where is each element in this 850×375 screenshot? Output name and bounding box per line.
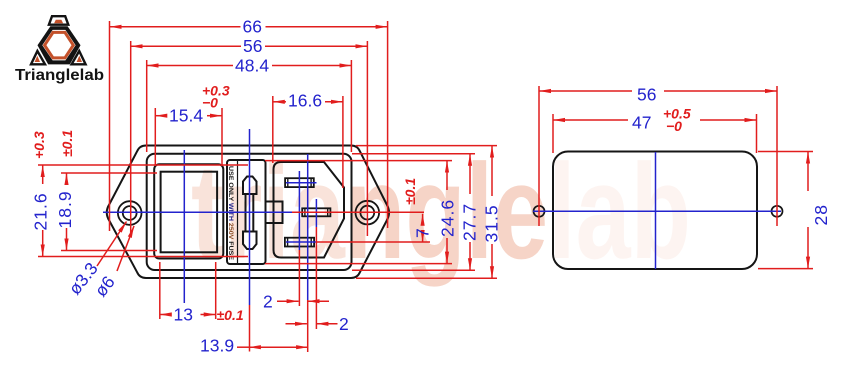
- fuse label text: [227, 166, 234, 261]
- switch rocker: [161, 172, 218, 253]
- LEFTVIEW: [107, 146, 389, 279]
- dim 27.7 extension bottom: [352, 269, 475, 271]
- right mounting hole inner: [360, 206, 374, 220]
- fuse opening: [227, 160, 266, 264]
- switch vertical centerline: [183, 150, 185, 303]
- dim 31.5 line: [491, 146, 493, 196]
- dim 56 extension right: [366, 41, 368, 236]
- svg-text:−0: −0: [666, 118, 682, 134]
- cutout vertical centerline: [655, 152, 657, 269]
- right view dim 28 extension bottom: [758, 268, 813, 270]
- panel hole left: [534, 206, 545, 217]
- dim 18.9 extension bottom: [61, 250, 157, 252]
- right view dim 56 extension right: [776, 86, 778, 226]
- right mounting hole outer: [356, 201, 380, 225]
- dim 24.6 line: [446, 161, 448, 190]
- svg-text:48.4: 48.4: [235, 56, 269, 76]
- svg-text:13: 13: [174, 305, 193, 325]
- dim 16.6 line: [273, 101, 286, 103]
- dim 16.6 extension right: [342, 96, 344, 188]
- logo bottom-right corner piece: [72, 51, 86, 64]
- svg-text:±0.1: ±0.1: [217, 307, 244, 323]
- dim 66 extension left: [109, 21, 111, 231]
- bottom pin horizontal centerline: [286, 241, 317, 243]
- fuse cap top: [243, 177, 257, 195]
- dim 2 lower leader right: [316, 323, 337, 325]
- dim 2 upper leader: [277, 300, 299, 302]
- svg-text:28: 28: [811, 204, 831, 225]
- logo bottom-left orange wedge: [35, 56, 40, 62]
- dim 48.4 extension left: [146, 60, 148, 152]
- logo black hexagon body: [38, 26, 81, 64]
- svg-text:15.4: 15.4: [169, 106, 203, 126]
- right view dim 47 extension left: [552, 114, 554, 153]
- dim 18.9 line: [66, 173, 68, 183]
- right view dim 28 line: [807, 152, 809, 192]
- fuse label divider: [237, 161, 239, 264]
- dim 18.9 extension top: [61, 172, 157, 174]
- dim 13 extension right: [215, 262, 217, 319]
- dim 31.5 extension top: [356, 145, 497, 147]
- socket centerline red extension: [307, 300, 309, 352]
- dim 24.6 extension top: [265, 160, 452, 162]
- dim 31.5 extension bottom: [356, 277, 497, 279]
- IEC socket opening: [274, 162, 345, 258]
- bottom pin centerline red extension: [317, 241, 431, 243]
- fuse body side lines: [245, 194, 247, 232]
- svg-text:21.6: 21.6: [31, 192, 51, 230]
- svg-text:2: 2: [263, 292, 273, 312]
- RIGHTVIEW: [534, 152, 783, 270]
- dim 27.7 line: [469, 154, 471, 194]
- svg-text:±0.1: ±0.1: [59, 130, 75, 157]
- dim 13 line: [160, 314, 172, 316]
- dim 15.4 line: [155, 115, 167, 117]
- face plate: [147, 154, 352, 270]
- leader dia3.3: [97, 222, 127, 267]
- dim 24.6 extension bottom: [265, 263, 452, 265]
- svg-text:2: 2: [339, 314, 349, 334]
- logo bottom-right orange wedge: [77, 56, 82, 62]
- svg-text:−0: −0: [202, 95, 218, 111]
- dim 15.4 extension right: [221, 108, 223, 166]
- pin bottom: [285, 238, 314, 247]
- fuse centerline red extension: [249, 305, 251, 352]
- svg-text:18.9: 18.9: [55, 190, 75, 228]
- BLUELINES: [103, 129, 781, 305]
- svg-text:+0.3: +0.3: [31, 131, 47, 159]
- fuse vertical centerline: [249, 129, 251, 305]
- right view dim 28 extension top: [758, 151, 813, 153]
- dim 27.7 extension top: [352, 153, 475, 155]
- svg-text:±0.1: ±0.1: [402, 178, 418, 205]
- dim 21.6 line: [42, 165, 44, 184]
- middle pin centerline red extension: [315, 227, 317, 329]
- dim 7 line: [422, 214, 424, 224]
- dim 48.4 line: [147, 65, 233, 67]
- LOGO: [15, 16, 104, 84]
- dim 13.9 line: [249, 346, 308, 348]
- svg-text:24.6: 24.6: [438, 199, 458, 237]
- dim 2 upper tail: [308, 300, 329, 302]
- logo top corner orange wedge: [54, 20, 63, 24]
- logo bottom-left corner piece: [31, 51, 45, 64]
- dim 21.6 extension bottom: [38, 256, 248, 258]
- dim 16.6 extension left: [272, 96, 274, 163]
- outer pins vertical centerline: [298, 171, 300, 250]
- svg-text:56: 56: [637, 85, 656, 105]
- left mounting hole outer: [118, 201, 142, 225]
- svg-text:56: 56: [243, 36, 262, 56]
- dim 66 extension right: [387, 21, 389, 228]
- right view dim 47 extension right: [756, 114, 758, 153]
- svg-text:31.5: 31.5: [482, 204, 502, 242]
- svg-text:16.6: 16.6: [288, 91, 322, 111]
- pin top: [285, 178, 314, 187]
- dim 15.4 extension left: [154, 108, 156, 166]
- dim 56 line: [131, 45, 241, 47]
- right view dim 47 line: [553, 119, 628, 121]
- pin middle: [302, 208, 330, 216]
- dim 56 extension left: [130, 41, 132, 236]
- outer pin centerline red extension: [298, 250, 300, 306]
- socket vertical centerline: [307, 154, 309, 300]
- body outline octagon: [107, 146, 389, 279]
- right view dim 56 line: [539, 90, 632, 92]
- dim 21.6 extension top: [38, 164, 248, 166]
- svg-text:Trianglelab: Trianglelab: [15, 67, 104, 84]
- dim 48.4 extension right: [350, 60, 352, 152]
- switch opening: [154, 164, 223, 258]
- svg-text:66: 66: [243, 17, 262, 37]
- svg-text:13.9: 13.9: [200, 336, 234, 356]
- fuse drawer tab: [266, 202, 283, 224]
- left mounting hole inner: [123, 206, 137, 220]
- main horizontal centerline: [103, 211, 302, 213]
- fuse cap bottom: [243, 232, 257, 250]
- dim 2 lower tail left: [286, 323, 307, 325]
- right view dim 56 extension left: [538, 86, 540, 226]
- logo orange hexagon ring: [45, 32, 74, 58]
- dim 13 extension left: [159, 262, 161, 319]
- middle pin vertical centerline: [315, 199, 317, 227]
- svg-text:USE ONLY WITH 250V FUSE: USE ONLY WITH 250V FUSE: [227, 166, 234, 261]
- svg-text:27.7: 27.7: [460, 203, 480, 241]
- cutout horizontal centerline: [533, 210, 781, 212]
- top pin horizontal centerline: [286, 182, 317, 184]
- logo top corner piece: [49, 16, 68, 25]
- centerline red extension horizontal: [292, 211, 424, 213]
- dim 66 line: [110, 26, 241, 28]
- panel cutout: [553, 152, 757, 270]
- dim 13.9 stub: [237, 346, 249, 348]
- svg-text:47: 47: [632, 113, 651, 133]
- panel hole right: [772, 206, 783, 217]
- logo white hexagon core: [42, 30, 75, 61]
- svg-text:7: 7: [413, 228, 433, 238]
- leader dia6: [117, 226, 134, 271]
